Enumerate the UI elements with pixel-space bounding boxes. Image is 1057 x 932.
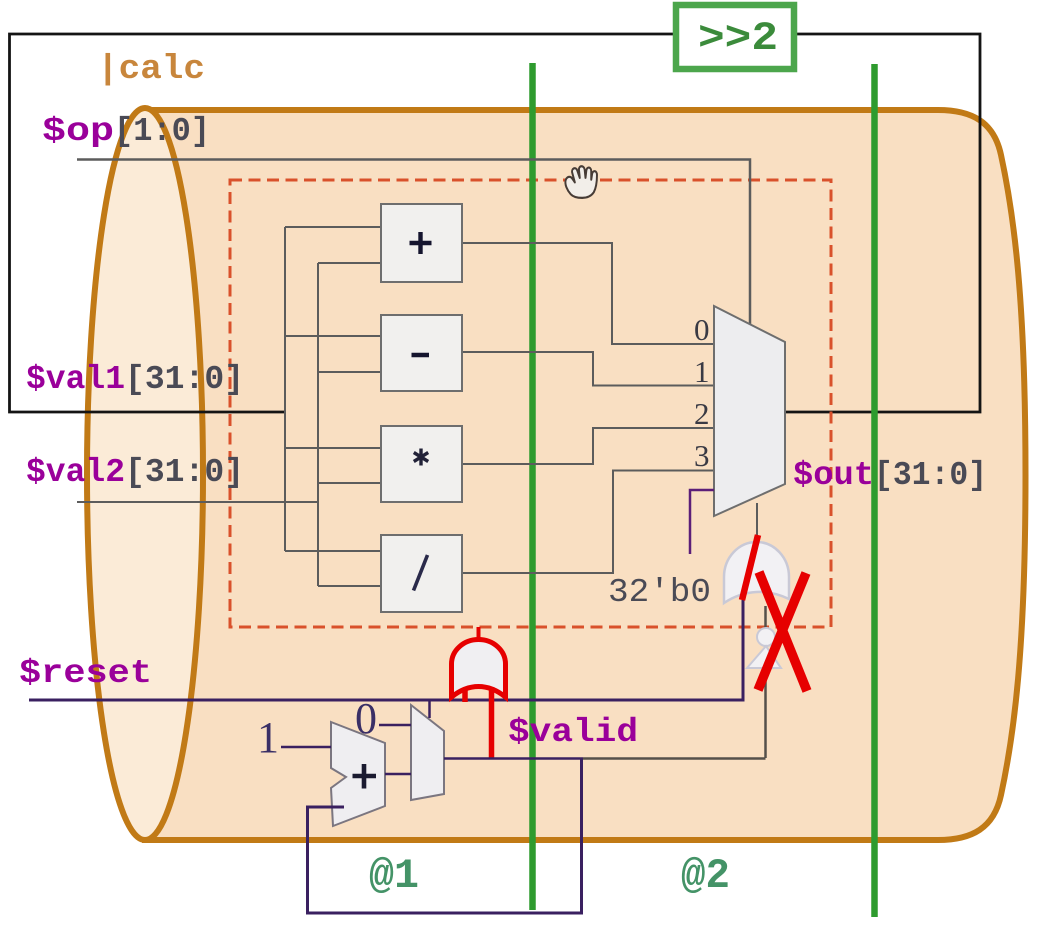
wire: black feedback loop / $val1 path bbox=[10, 34, 981, 412]
wire: multiplier inputs bbox=[285, 448, 381, 483]
pipeline cylinder left end cap bbox=[87, 108, 203, 840]
svg-text:$op: $op bbox=[42, 113, 114, 150]
counter adder bbox=[331, 722, 385, 826]
ALU box - bbox=[381, 315, 462, 391]
wire: $val2 input bus vertical bbox=[317, 263, 319, 586]
svg-text:2: 2 bbox=[694, 396, 710, 431]
ghost clock triangle bbox=[747, 646, 781, 668]
red slash wire through gate bbox=[742, 535, 758, 600]
svg-text:>>2: >>2 bbox=[698, 17, 778, 62]
svg-text:[31:0]: [31:0] bbox=[125, 361, 244, 398]
pipeline cylinder body bbox=[145, 110, 1026, 840]
svg-text:1: 1 bbox=[694, 354, 710, 389]
wire: adder + inputs bbox=[285, 227, 381, 263]
svg-text:@1: @1 bbox=[369, 852, 419, 900]
wire: subtractor inputs bbox=[285, 336, 381, 372]
ALU box / bbox=[381, 535, 462, 612]
svg-text:$val1: $val1 bbox=[26, 361, 125, 398]
wire: constant 1 into adder bbox=[281, 746, 331, 749]
ALU box * bbox=[381, 426, 462, 502]
wire: $reset bbox=[29, 600, 743, 700]
svg-text:$reset: $reset bbox=[19, 655, 152, 692]
svg-text:$val2: $val2 bbox=[26, 454, 125, 491]
wire: constant 0 into mux bbox=[379, 724, 411, 727]
OR gate (reset or-ing), red highlighted bbox=[452, 627, 506, 759]
ALU box + bbox=[381, 204, 462, 282]
wire: reset select into counter mux bbox=[428, 700, 431, 718]
svg-text:$valid: $valid bbox=[508, 714, 638, 751]
retiming box >>2 bbox=[676, 5, 794, 69]
wire: $valid row bbox=[444, 757, 583, 760]
wire: divider inputs bbox=[285, 551, 381, 586]
hand cursor bbox=[565, 166, 597, 198]
wire: $op select bbox=[77, 160, 750, 326]
svg-text:[31:0]: [31:0] bbox=[874, 457, 987, 494]
wire: multiplier output to mux input 2 bbox=[462, 428, 714, 464]
wire: counter feedback loop bbox=[308, 758, 582, 913]
svg-text:[1:0]: [1:0] bbox=[114, 113, 210, 150]
ghost when-gate (disabled) bbox=[724, 542, 789, 603]
svg-text:0: 0 bbox=[694, 312, 710, 347]
wire: subtractor output to mux input 1 bbox=[462, 352, 714, 386]
svg-text:@2: @2 bbox=[681, 852, 730, 900]
wire: $val2 input bbox=[77, 501, 318, 503]
pipeline stage boundary green line 1 bbox=[529, 63, 536, 910]
svg-text:1: 1 bbox=[257, 713, 279, 762]
svg-text:[31:0]: [31:0] bbox=[125, 454, 244, 491]
svg-text:$out: $out bbox=[793, 457, 874, 494]
ghost inverter bubble bbox=[757, 628, 775, 646]
counter reset mux bbox=[411, 705, 444, 800]
wire: adder output to mux bbox=[385, 773, 411, 776]
result mux U1 bbox=[714, 306, 785, 516]
wire: $val1 input bus vertical bbox=[284, 227, 286, 551]
svg-text:3: 3 bbox=[694, 438, 710, 473]
svg-text:|calc: |calc bbox=[97, 51, 205, 89]
dashed expression boundary rectangle bbox=[230, 180, 831, 627]
pipeline stage boundary green line 2 bbox=[871, 64, 878, 917]
red X cross-out stroke 2 bbox=[758, 573, 806, 690]
svg-text:0: 0 bbox=[355, 694, 377, 743]
svg-text:32'b0: 32'b0 bbox=[608, 574, 711, 611]
red X cross-out stroke 1 bbox=[759, 572, 807, 691]
wire: mux output down to gate bbox=[756, 503, 758, 536]
wire: 32'b0 constant into mux bbox=[690, 490, 714, 554]
wire: gate output down to $valid row bbox=[764, 606, 767, 758]
wire: divider output to mux input 3 bbox=[462, 471, 714, 574]
wire: adder output to mux input 0 bbox=[462, 243, 714, 344]
